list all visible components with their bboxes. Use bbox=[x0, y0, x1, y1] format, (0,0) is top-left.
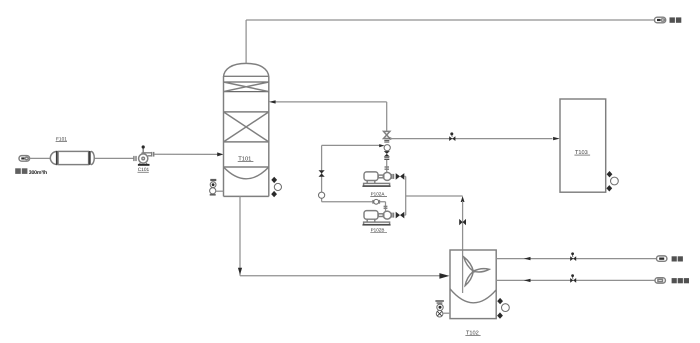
level gauge cluster right of T103 bbox=[606, 171, 618, 192]
wire column top to vent header bbox=[246, 20, 654, 63]
instrument PI cluster left of column bbox=[210, 179, 224, 196]
cooling tower T102 bbox=[450, 250, 496, 319]
label 沼气300m3/h (feed stream text) bbox=[15, 168, 47, 176]
label P102B bbox=[370, 228, 387, 233]
wire filter to blower bbox=[95, 157, 134, 159]
label T103 bbox=[574, 150, 590, 156]
small hand valve on makeup line bbox=[570, 252, 576, 261]
node feed inlet connector bbox=[19, 156, 30, 162]
level gauge cluster bottom-right of T102 bbox=[497, 298, 509, 319]
demister band of T101 bbox=[224, 82, 269, 92]
pump A suction valve bbox=[392, 173, 406, 180]
wire column bottoms with down arrow bbox=[238, 196, 450, 278]
wire inlet to filter bbox=[30, 157, 51, 159]
label P102A bbox=[370, 191, 387, 196]
valve dark on recycle leg bbox=[319, 170, 325, 177]
tank T103 bbox=[560, 99, 606, 192]
blower C101 bbox=[134, 145, 154, 165]
valve V1 on riser bbox=[384, 131, 392, 142]
label C101 bbox=[138, 167, 150, 173]
wire makeup water line with arrow bbox=[496, 257, 656, 260]
valve dark on tower riser bbox=[459, 219, 466, 225]
pump P102A bbox=[362, 172, 391, 186]
svg-text:300m³/h: 300m³/h bbox=[29, 170, 47, 176]
instrument cluster bottom-left of T102 bbox=[435, 301, 450, 317]
wire to tank T103 with arrow bbox=[390, 137, 560, 140]
svg-text:P102B: P102B bbox=[371, 228, 385, 233]
wire pump B discharge stub bbox=[384, 202, 388, 212]
spray return wire into column with arrow bbox=[269, 100, 387, 103]
level gauge cluster right of column bbox=[271, 177, 281, 198]
wire riser to pump A bbox=[385, 160, 390, 172]
wire recycle leg (left vertical) bbox=[322, 145, 386, 201]
wire blower to column with arrow bbox=[154, 152, 224, 156]
bottom dish of T101 bbox=[224, 167, 269, 179]
small hand valve on T103 line bbox=[449, 132, 455, 141]
label T101 bbox=[238, 156, 254, 163]
wire discharge riser bbox=[386, 102, 388, 132]
check valve circle bbox=[384, 145, 390, 151]
pump P102B bbox=[362, 211, 391, 225]
packing section of T101 bbox=[224, 112, 269, 142]
pump B suction valve bbox=[392, 212, 406, 219]
wire pump A/B common line with arrow into check valve bbox=[322, 144, 385, 147]
small hand valve on reuse line bbox=[570, 274, 576, 283]
valve V2 dark on riser bbox=[384, 151, 390, 159]
label T102 bbox=[465, 331, 480, 337]
node reuse water connector 回用水 bbox=[655, 278, 689, 284]
svg-text:P102A: P102A bbox=[371, 191, 386, 196]
filter F101 horizontal vessel bbox=[50, 151, 94, 165]
wire suction header bbox=[406, 176, 463, 215]
wire riser from cooling tower with up arrow bbox=[461, 196, 465, 293]
column T101 shell bbox=[224, 63, 269, 196]
label F101 bbox=[56, 137, 68, 143]
node makeup water connector 补水 bbox=[657, 256, 683, 262]
node vent connector 排空 bbox=[655, 17, 682, 23]
fitting circle on recycle leg bbox=[319, 192, 325, 198]
fitting on pump B discharge run bbox=[373, 199, 379, 204]
wire reuse water line with arrow bbox=[496, 279, 655, 282]
propeller of T102 bbox=[464, 257, 489, 286]
